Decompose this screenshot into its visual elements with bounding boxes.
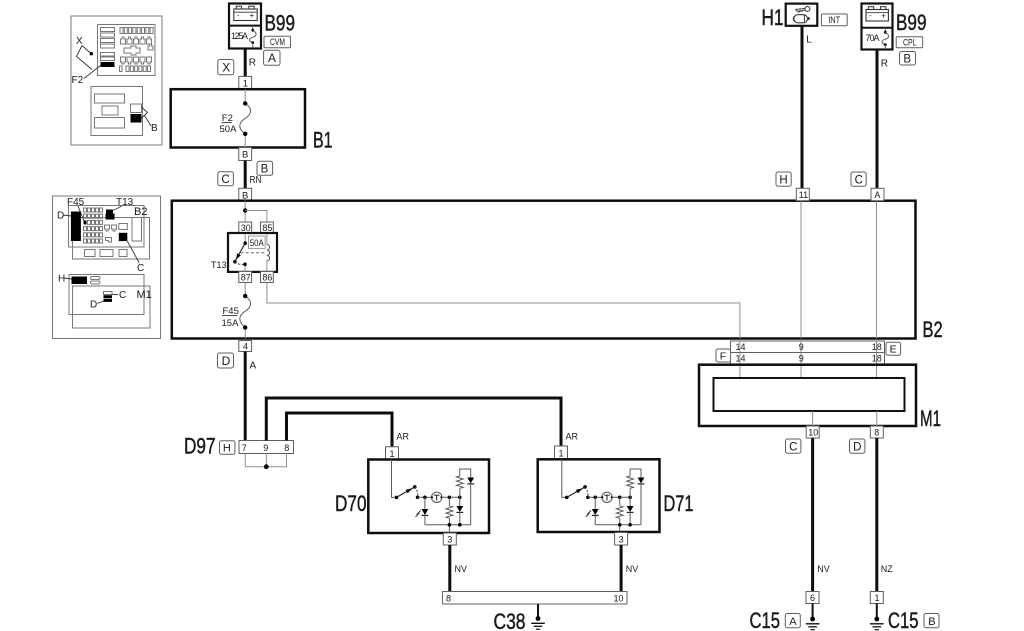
resistor R3 [619, 497, 621, 505]
svg-text:1: 1 [559, 448, 564, 458]
label D leader [98, 301, 104, 304]
connector X box [218, 60, 234, 75]
svg-text:3: 3 [619, 535, 624, 545]
svg-text:CPL: CPL [903, 38, 917, 49]
diode D3 [467, 478, 474, 484]
relay rating 50A [249, 236, 266, 249]
diode D2 [459, 497, 461, 506]
module B highlighted [131, 114, 142, 123]
tall module right [132, 218, 142, 242]
svg-text:6: 6 [810, 593, 815, 603]
svg-text:NV: NV [455, 564, 468, 574]
lamp L2 [602, 492, 612, 502]
svg-text:+: + [250, 11, 255, 20]
pin 30 [239, 222, 252, 233]
switch contact left [395, 496, 399, 500]
tag INT [821, 14, 847, 26]
wire pin 86 to pin 14 [267, 283, 740, 339]
bottom bus [595, 524, 641, 526]
relay coil [267, 245, 270, 262]
svg-text:R: R [881, 59, 888, 70]
switch blade [397, 487, 415, 498]
svg-text:AR: AR [397, 432, 410, 442]
pin 85 [261, 222, 274, 233]
pin 1 of D70 [386, 447, 399, 460]
connector C box [218, 172, 234, 186]
svg-text:85: 85 [262, 223, 272, 233]
ground C15 B [870, 604, 884, 630]
svg-text:AR: AR [566, 432, 579, 442]
maxi fuse row [121, 37, 152, 44]
tag CVM [264, 36, 291, 48]
D70 internals [392, 460, 475, 534]
relay internal pass wires [244, 234, 246, 243]
switch blade [567, 487, 585, 498]
pin 11 of B2 [796, 188, 809, 200]
svg-text:7: 7 [242, 443, 247, 453]
fuse F45 highlighted [84, 220, 87, 224]
connector C box [786, 439, 801, 454]
svg-text:H: H [223, 443, 231, 455]
svg-text:8: 8 [284, 443, 289, 453]
svg-text:A: A [268, 51, 276, 65]
svg-text:M1: M1 [137, 289, 152, 301]
connector D box [850, 439, 865, 454]
svg-text:3: 3 [447, 535, 452, 545]
fuse F2 highlighted [101, 62, 115, 67]
svg-text:D70: D70 [335, 491, 367, 516]
wire branch to pin 85 [245, 211, 267, 223]
wire pin A to pin 18 inside B2 [876, 201, 878, 339]
svg-text:B99: B99 [265, 11, 296, 36]
svg-text:B: B [242, 150, 248, 161]
connector D97 pins 7 9 8 [239, 441, 294, 454]
fuse grid [84, 208, 103, 243]
svg-text:11: 11 [799, 190, 808, 200]
fuse 70A inside B99 right [866, 28, 889, 49]
inset fusebox location B2/M1 [53, 196, 161, 339]
D71 internals [562, 459, 645, 532]
ignition switch H1 [786, 4, 818, 26]
svg-text:D71: D71 [664, 491, 694, 516]
M1 inner block [714, 378, 905, 411]
M1 back panel [69, 275, 144, 315]
svg-text:M1: M1 [920, 406, 941, 431]
svg-text:1: 1 [390, 449, 395, 459]
D97 bus link [245, 454, 286, 470]
wire NV D70 to C38 [448, 545, 451, 592]
resistor R4 top [629, 489, 631, 498]
fuse F45 15A inside B2 [222, 283, 251, 339]
battery B99 (left) [229, 4, 261, 49]
svg-text:9: 9 [799, 354, 804, 364]
small fuse row top [120, 28, 153, 34]
tag E box [886, 342, 901, 355]
relay T13 highlighted [106, 210, 115, 220]
wire A B2 to D97 [244, 352, 247, 441]
svg-text:14: 14 [736, 354, 746, 364]
fuse 125A inside B99 left [231, 26, 256, 48]
wire AR D97-8 to D70 [287, 413, 393, 447]
svg-text:F2: F2 [72, 75, 84, 86]
control unit M1 [699, 365, 916, 426]
svg-text:30: 30 [241, 223, 251, 233]
relay switch blade [235, 243, 245, 261]
pin 1 ground C15B [870, 592, 883, 604]
svg-text:D: D [222, 354, 231, 368]
ground C38 [531, 604, 545, 629]
svg-text:B: B [903, 54, 911, 66]
diode D6 [638, 478, 645, 484]
fuse panel outline [98, 25, 156, 76]
svg-text:D: D [90, 300, 97, 311]
fuse F2 50A inside B1 [220, 89, 251, 147]
pin 8 of M1 [870, 426, 883, 438]
svg-text:H: H [779, 175, 787, 187]
svg-text:10: 10 [614, 594, 624, 604]
svg-text:C: C [789, 442, 797, 454]
switch contact right [416, 496, 420, 500]
wire lamp to branches [612, 496, 630, 498]
pin 86 [261, 272, 274, 283]
H highlighted connector [72, 277, 88, 285]
svg-text:B: B [928, 616, 935, 628]
maxi fuse row 2 [121, 57, 152, 64]
svg-text:B1: B1 [313, 128, 333, 153]
svg-text:70A: 70A [866, 33, 880, 43]
svg-text:C38: C38 [494, 609, 526, 631]
svg-text:L: L [806, 35, 812, 46]
node junction dot [243, 208, 247, 212]
small fuses [105, 225, 110, 231]
inset fusebox location X/B [71, 16, 162, 145]
wire lamp to branches [442, 496, 460, 498]
tag B box [900, 52, 916, 66]
svg-text:18: 18 [872, 354, 882, 364]
svg-text:NV: NV [626, 564, 639, 574]
LED D4 [594, 497, 596, 509]
pin B bottom of B1 [239, 148, 252, 161]
svg-text:A: A [789, 616, 797, 628]
svg-text:C: C [137, 263, 144, 274]
svg-text:9: 9 [263, 443, 268, 453]
connector row E pins 14 9 18 [731, 341, 885, 353]
svg-text:87: 87 [241, 272, 251, 282]
svg-text:R: R [249, 58, 256, 69]
tag B box [257, 161, 273, 175]
relay contact 87 [235, 262, 245, 265]
svg-text:T13: T13 [211, 260, 227, 271]
svg-text:4: 4 [243, 341, 248, 351]
svg-text:A: A [874, 190, 880, 200]
connector D box [218, 353, 234, 368]
svg-text:H1: H1 [762, 5, 784, 30]
fusebox B1 [171, 89, 305, 147]
junction dots [593, 496, 597, 500]
svg-text:8: 8 [446, 594, 451, 604]
battery holder inset [91, 87, 143, 136]
wires rows into M1 [739, 364, 741, 378]
wire L H1 to B2 [801, 26, 804, 189]
svg-text:D: D [57, 211, 64, 222]
tag F box [716, 349, 731, 362]
wire to lamp [588, 496, 602, 498]
svg-text:X: X [222, 61, 230, 75]
bottom bus [425, 524, 471, 526]
wire to lamp [418, 496, 432, 498]
fusebox B2 [172, 201, 916, 339]
switch contact right [586, 496, 590, 500]
small fuse row bottom [120, 66, 151, 72]
lamp L1 [432, 492, 442, 502]
connector C38 pins 8 10 [443, 592, 628, 605]
wires M1 inner to pins [812, 411, 814, 426]
svg-text:C: C [855, 175, 863, 187]
relay T13 box [228, 233, 277, 272]
pin 3 of D71 [615, 533, 628, 546]
wire RN B1 to B2 [244, 161, 247, 189]
relay slot shape [124, 46, 140, 55]
svg-text:CVM: CVM [270, 37, 285, 48]
bottom slots [85, 250, 96, 257]
svg-text:RN: RN [250, 175, 262, 186]
left fuse column [101, 28, 115, 32]
svg-text:+: + [881, 12, 886, 21]
diode D5 [629, 497, 631, 506]
connector row F pins 14 9 18 [731, 353, 885, 365]
LED D1 [424, 497, 426, 509]
svg-text:14: 14 [736, 342, 746, 352]
B2 panel front [69, 206, 145, 248]
svg-text:E: E [890, 344, 897, 356]
pin 4 of B2 [239, 341, 252, 352]
wire AR D97-9 to D71 [266, 398, 561, 446]
junction dots [423, 496, 427, 500]
relay actuation dashed link [241, 252, 267, 254]
svg-text:D97: D97 [184, 434, 216, 459]
svg-text:B: B [261, 164, 269, 176]
pin B top of B2 [239, 188, 252, 201]
svg-text:NV: NV [817, 564, 830, 574]
relay switch contact 30 [243, 241, 247, 245]
svg-text:15A: 15A [222, 318, 240, 329]
svg-text:50A: 50A [220, 124, 238, 135]
tag A box [264, 50, 280, 65]
wire R battery to B1 [244, 48, 247, 76]
pin 6 ground C15A [806, 592, 819, 604]
ground C15 A [806, 604, 820, 630]
svg-text:18: 18 [872, 342, 882, 352]
tag H box [220, 441, 235, 455]
connector H box [776, 172, 791, 187]
connector C box [851, 172, 866, 187]
switch D71 box [538, 459, 660, 532]
svg-text:T13: T13 [116, 197, 134, 208]
svg-text:B2: B2 [134, 206, 147, 218]
svg-text:125A: 125A [231, 31, 248, 41]
resistor R1 [448, 497, 450, 505]
svg-text:10: 10 [808, 428, 818, 438]
svg-text:9: 9 [799, 342, 804, 352]
pin 10 of M1 [806, 426, 819, 438]
wire NV M1 to ground [811, 438, 814, 592]
svg-text:1: 1 [243, 78, 248, 89]
wire NV D71 to C38 [620, 545, 623, 592]
svg-text:A: A [250, 361, 257, 372]
M1 front panel [73, 286, 151, 328]
wire R battery right to B2 [876, 50, 879, 189]
svg-text:X: X [76, 36, 83, 47]
wire node into pin 30 [244, 201, 246, 222]
pin A of B2 [871, 188, 884, 200]
svg-text:F: F [720, 350, 726, 362]
svg-text:F45: F45 [67, 197, 85, 208]
svg-text:D: D [853, 442, 861, 454]
relay C highlighted [119, 233, 128, 241]
svg-text:C: C [221, 174, 229, 186]
pin 3 of D70 [443, 533, 456, 545]
svg-text:1: 1 [875, 593, 880, 603]
pin 1 of D71 [555, 446, 568, 459]
black connector bar [71, 212, 81, 242]
svg-text:C15: C15 [888, 608, 919, 631]
tag CPL [896, 37, 923, 49]
label C leader [112, 294, 118, 296]
pin 1 of B1 [239, 76, 252, 89]
B2 panel back [73, 218, 150, 260]
wire NZ M1 to ground [875, 438, 878, 592]
svg-text:B99: B99 [896, 10, 927, 35]
svg-text:C15: C15 [750, 608, 781, 631]
battery B99 (right) [862, 4, 893, 50]
switch contact left [565, 496, 569, 500]
switch D70 box [368, 460, 489, 534]
svg-text:B: B [151, 123, 158, 134]
svg-text:86: 86 [262, 272, 272, 282]
svg-text:INT: INT [828, 15, 840, 25]
svg-text:H: H [58, 274, 65, 285]
svg-text:C: C [119, 290, 126, 301]
svg-text:50A: 50A [250, 238, 264, 248]
connector stack [104, 292, 113, 295]
wire pin 11 to pin 9 inside B2 [800, 201, 802, 339]
pin 87 [239, 272, 252, 283]
svg-text:B2: B2 [923, 317, 943, 342]
svg-text:8: 8 [874, 428, 879, 438]
resistor R2 top [459, 489, 461, 498]
svg-text:NZ: NZ [881, 564, 893, 574]
wire pin1 lead [392, 460, 397, 498]
